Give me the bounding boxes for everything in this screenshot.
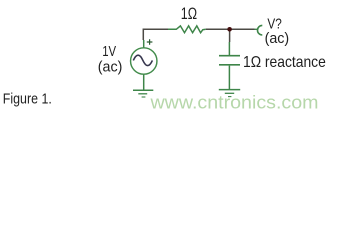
svg-text:Figure 1.: Figure 1. bbox=[3, 91, 52, 107]
svg-text:(ac): (ac) bbox=[98, 60, 123, 76]
svg-text:V?: V? bbox=[267, 16, 281, 32]
svg-text:(ac): (ac) bbox=[265, 31, 290, 47]
svg-text:www.cntronics.com: www.cntronics.com bbox=[149, 92, 318, 113]
svg-text:1V: 1V bbox=[102, 44, 116, 60]
svg-text:1Ω reactance: 1Ω reactance bbox=[243, 54, 326, 71]
svg-text:1Ω: 1Ω bbox=[181, 5, 197, 23]
